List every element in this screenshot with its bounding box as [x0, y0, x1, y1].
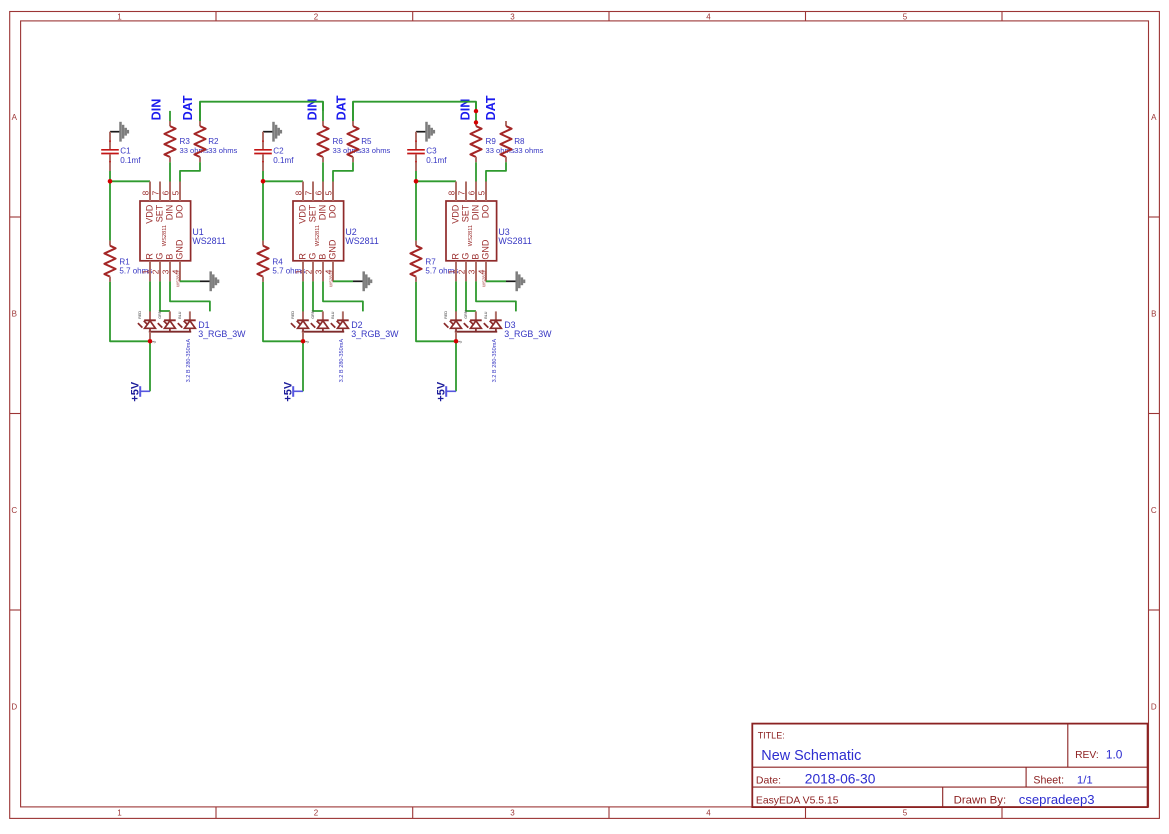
svg-text:6: 6	[313, 190, 323, 195]
wire junction to VDD pin 8 (block 2)	[263, 180, 303, 182]
pin name R (U1)	[145, 253, 155, 260]
wire pin 3 B to LED3 (block 2)	[323, 281, 363, 311]
net label DIN (block 2)	[306, 99, 320, 121]
drawn by value csepradeep3	[1019, 792, 1095, 807]
resistor R1	[104, 241, 115, 282]
svg-text:4: 4	[706, 809, 711, 818]
value 33 ohms (R5)	[361, 146, 390, 155]
svg-text:2: 2	[456, 269, 466, 274]
svg-text:DO: DO	[481, 205, 491, 219]
svg-text:R: R	[145, 253, 155, 260]
resistor R9	[470, 121, 481, 162]
label U2	[345, 227, 356, 237]
resistor R2	[194, 121, 205, 162]
svg-text:B: B	[1151, 309, 1156, 318]
svg-text:1: 1	[293, 269, 303, 274]
pin number 6 (U2)	[313, 190, 323, 195]
label D1	[198, 320, 209, 330]
frame column label 2 bottom	[314, 809, 319, 818]
svg-text:3.2 B 280-350mA: 3.2 B 280-350mA	[492, 339, 498, 383]
sheet value 1/1	[1077, 775, 1093, 787]
value 0.1mf (C1)	[120, 156, 141, 165]
svg-text:Sheet:: Sheet:	[1033, 775, 1064, 787]
power flag +5V (block 2)	[282, 381, 303, 402]
pin number 5 (U2)	[323, 190, 333, 195]
svg-text:GND: GND	[175, 239, 185, 260]
svg-text:R1: R1	[119, 258, 130, 267]
pin name B (U1)	[165, 254, 175, 260]
pin number 1 (U3)	[446, 269, 456, 274]
svg-text:3_RGB_3W: 3_RGB_3W	[198, 329, 246, 339]
label R3	[180, 137, 191, 146]
LED pin tag 1 (D2)	[291, 311, 295, 319]
label R1	[119, 258, 130, 267]
wire R1 to LED common	[110, 282, 150, 341]
svg-text:6: 6	[466, 190, 476, 195]
subpart text WS2811 below U2	[328, 270, 333, 287]
rev value 1.0	[1106, 747, 1123, 761]
svg-text:G: G	[308, 253, 318, 260]
svg-text:G: G	[155, 253, 165, 260]
svg-text:DAT: DAT	[181, 95, 195, 120]
svg-text:+5V: +5V	[435, 381, 447, 402]
svg-text:A: A	[1151, 113, 1157, 122]
svg-text:3.2 B 280-350mA: 3.2 B 280-350mA	[186, 339, 192, 383]
wire R5 to pin 5 (DO)	[333, 162, 353, 181]
svg-text:5: 5	[476, 190, 486, 195]
svg-text:BLU: BLU	[331, 311, 335, 319]
svg-text:+5V: +5V	[129, 381, 141, 402]
svg-text:3: 3	[466, 269, 476, 274]
value 3_RGB_3W (D2)	[351, 329, 399, 339]
value 3_RGB_3W (D3)	[504, 329, 552, 339]
svg-text:3: 3	[458, 340, 464, 343]
svg-text:DIN: DIN	[471, 205, 481, 221]
title block Date: label	[756, 775, 781, 787]
title block Drawn By: label	[954, 795, 1007, 807]
svg-text:DO: DO	[328, 205, 338, 219]
junction dot on U3 DIN wire (lower)	[474, 120, 478, 124]
pin number 4 (U3)	[476, 269, 486, 274]
junction node VDD rail (block 3)	[414, 179, 419, 184]
svg-text:1: 1	[140, 269, 150, 274]
svg-text:WS2811: WS2811	[315, 225, 321, 246]
svg-text:0.1mf: 0.1mf	[426, 156, 447, 165]
ground symbol near U3	[506, 271, 524, 291]
svg-text:R9: R9	[486, 137, 497, 146]
frame row label C left	[11, 506, 17, 515]
svg-text:csepradeep3: csepradeep3	[1019, 792, 1095, 807]
frame row label A right	[1151, 113, 1157, 122]
value 5.7 ohms (R7)	[425, 267, 458, 276]
pin name G (U3)	[461, 253, 471, 260]
pin number 6 (U1)	[160, 190, 170, 195]
net label DAT (block 3)	[484, 95, 498, 120]
label R8	[514, 137, 525, 146]
pin number 3 (U1)	[160, 269, 170, 274]
wire pin 3 B to LED3 (block 3)	[476, 281, 516, 311]
ground symbol near U1	[200, 271, 218, 291]
resistor R4	[257, 241, 268, 282]
LED pin tag 2 (D1)	[158, 310, 162, 319]
pin number 2 (U1)	[150, 269, 160, 274]
pin name VDD (U2)	[298, 204, 308, 224]
svg-text:4: 4	[706, 13, 711, 22]
svg-text:C: C	[11, 506, 17, 515]
svg-text:GRN: GRN	[311, 310, 315, 319]
pin name DO (U3)	[481, 205, 491, 219]
value 5.7 ohms (R1)	[119, 267, 152, 276]
pin name G (U2)	[308, 253, 318, 260]
svg-text:R6: R6	[333, 137, 344, 146]
pin name GND (U1)	[175, 239, 185, 260]
LED common pin number 3 (D1)	[152, 340, 158, 343]
svg-text:WS2811: WS2811	[328, 270, 333, 287]
LED array D2	[291, 311, 349, 339]
label R7	[425, 258, 436, 267]
svg-text:WS2811: WS2811	[498, 236, 531, 246]
svg-text:3: 3	[510, 809, 515, 818]
wire R4 to LED common	[263, 282, 303, 341]
svg-text:5: 5	[903, 809, 908, 818]
svg-text:VDD: VDD	[145, 204, 155, 224]
svg-text:1.0: 1.0	[1106, 747, 1123, 761]
svg-text:B: B	[12, 309, 17, 318]
resistor R8	[500, 121, 511, 162]
frame row label D right	[1151, 703, 1157, 712]
svg-text:TITLE:: TITLE:	[758, 730, 785, 740]
pin name DIN (U1)	[165, 205, 175, 221]
value 33 ohms (R9)	[486, 146, 515, 155]
svg-text:2018-06-30: 2018-06-30	[805, 772, 876, 787]
svg-text:SET: SET	[155, 204, 165, 222]
frame row label B left	[12, 309, 17, 318]
svg-text:R3: R3	[180, 137, 191, 146]
svg-text:WS2811: WS2811	[175, 270, 180, 287]
subpart text WS2811 below U3	[481, 270, 486, 287]
wire DIN stub to R3	[169, 111, 171, 121]
resistor R6	[317, 121, 328, 162]
junction node LED common (block 1)	[148, 339, 153, 344]
junction node LED common (block 3)	[454, 339, 459, 344]
pin number 7 (U3)	[456, 190, 466, 195]
svg-text:D: D	[11, 703, 17, 712]
wire DIN drop to R9	[475, 102, 477, 121]
value text 3.2 B 280-350mA (D3)	[492, 339, 498, 383]
svg-text:7: 7	[456, 190, 466, 195]
subpart text WS2811 inside U1	[162, 225, 168, 246]
ground symbol near C1	[110, 122, 128, 142]
pin number 1 (U1)	[140, 269, 150, 274]
wire LED common to +5V (block 1)	[149, 341, 151, 391]
svg-text:0.1mf: 0.1mf	[120, 156, 141, 165]
svg-text:C2: C2	[273, 146, 284, 155]
svg-text:WS2811: WS2811	[345, 236, 378, 246]
LED common pin number 3 (D2)	[305, 340, 311, 343]
wire junction to VDD pin 8 (block 3)	[416, 180, 456, 182]
wire R6 to pin 6	[322, 162, 324, 181]
svg-text:VDD: VDD	[298, 204, 308, 224]
svg-text:2: 2	[150, 269, 160, 274]
svg-text:DAT: DAT	[484, 95, 498, 120]
LED pin tag 2 (D3)	[464, 310, 468, 319]
pin name VDD (U3)	[451, 204, 461, 224]
svg-text:D: D	[1151, 703, 1157, 712]
svg-text:EasyEDA V5.5.15: EasyEDA V5.5.15	[756, 796, 839, 807]
wire junction to R4	[262, 181, 264, 240]
svg-text:R5: R5	[361, 137, 372, 146]
svg-text:3: 3	[510, 13, 515, 22]
svg-text:3: 3	[313, 269, 323, 274]
frame row label A left	[12, 113, 18, 122]
frame column label 5 top	[903, 13, 908, 22]
wire pin 4 GND to ground (block 3)	[486, 280, 506, 282]
svg-text:GND: GND	[328, 239, 338, 260]
wire pin 4 GND to ground (block 1)	[180, 280, 200, 282]
label R6	[333, 137, 344, 146]
pin number 2 (U3)	[456, 269, 466, 274]
resistor R5	[347, 121, 358, 162]
svg-text:A: A	[12, 113, 18, 122]
frame column label 1 top	[117, 13, 122, 22]
svg-text:0.1mf: 0.1mf	[273, 156, 294, 165]
wire DAT rise from R2	[199, 102, 201, 121]
svg-text:GRN: GRN	[158, 310, 162, 319]
svg-text:3: 3	[160, 269, 170, 274]
svg-text:3.2 B 280-350mA: 3.2 B 280-350mA	[339, 339, 345, 383]
label R2	[208, 137, 219, 146]
svg-text:33 ohms: 33 ohms	[208, 146, 237, 155]
svg-text:7: 7	[150, 190, 160, 195]
frame column label 3 top	[510, 13, 515, 22]
frame column label 4 top	[706, 13, 711, 22]
LED pin tag 2 (D2)	[311, 310, 315, 319]
value 33 ohms (R6)	[333, 146, 362, 155]
svg-text:1: 1	[117, 13, 122, 22]
svg-text:WS2811: WS2811	[481, 270, 486, 287]
capacitor C2	[254, 132, 272, 171]
value WS2811 (U1)	[192, 236, 225, 246]
pin name GND (U2)	[328, 239, 338, 260]
label D3	[504, 320, 515, 330]
wire net DAT1 (U1 DO to U2 DIN)	[200, 102, 323, 121]
pin name DO (U1)	[175, 205, 185, 219]
value 33 ohms (R2)	[208, 146, 237, 155]
net label DAT (block 2)	[335, 95, 349, 120]
label R5	[361, 137, 372, 146]
svg-text:BLU: BLU	[484, 311, 488, 319]
pin name SET (U3)	[461, 204, 471, 222]
svg-text:B: B	[165, 254, 175, 260]
frame column label 2 top	[314, 13, 319, 22]
pin number 3 (U3)	[466, 269, 476, 274]
frame row label D left	[11, 703, 17, 712]
wire C3 to junction	[415, 171, 417, 181]
LED pin tag 3 (D1)	[178, 311, 182, 319]
pin number 4 (U1)	[170, 269, 180, 274]
pin number 5 (U1)	[170, 190, 180, 195]
svg-text:33 ohms: 33 ohms	[514, 146, 543, 155]
svg-text:5: 5	[323, 190, 333, 195]
junction node LED common (block 2)	[301, 339, 306, 344]
subpart text WS2811 below U1	[175, 270, 180, 287]
frame row label B right	[1151, 309, 1156, 318]
label D2	[351, 320, 362, 330]
svg-text:WS2811: WS2811	[468, 225, 474, 246]
wire junction to VDD pin 8 (block 1)	[110, 180, 150, 182]
svg-text:BLU: BLU	[178, 311, 182, 319]
svg-text:DIN: DIN	[318, 205, 328, 221]
svg-text:R4: R4	[272, 258, 283, 267]
LED array D3	[444, 311, 502, 339]
pin number 6 (U3)	[466, 190, 476, 195]
wire pin 1 R to LED1 (block 3)	[455, 281, 457, 311]
svg-text:3: 3	[152, 340, 158, 343]
pin number 8 (U2)	[293, 190, 303, 195]
subpart text WS2811 inside U2	[315, 225, 321, 246]
pin number 4 (U2)	[323, 269, 333, 274]
junction node VDD rail (block 2)	[261, 179, 266, 184]
wire pin 1 R to LED1 (block 2)	[302, 281, 304, 311]
svg-text:5: 5	[903, 13, 908, 22]
svg-text:SET: SET	[308, 204, 318, 222]
svg-text:DO: DO	[175, 205, 185, 219]
frame column label 5 bottom	[903, 809, 908, 818]
frame column label 1 bottom	[117, 809, 122, 818]
wire pin 1 R to LED1 (block 1)	[149, 281, 151, 311]
value 0.1mf (C2)	[273, 156, 294, 165]
LED pin tag 1 (D3)	[444, 311, 448, 319]
ground symbol near U2	[353, 271, 371, 291]
wire LED common to +5V (block 2)	[302, 341, 304, 391]
frame column label 3 bottom	[510, 809, 515, 818]
svg-text:5: 5	[170, 190, 180, 195]
title block Sheet: label	[1033, 775, 1064, 787]
svg-text:8: 8	[446, 190, 456, 195]
svg-text:RED: RED	[291, 311, 295, 319]
svg-text:3: 3	[305, 340, 311, 343]
svg-text:R: R	[298, 253, 308, 260]
LED pin tag 3 (D3)	[484, 311, 488, 319]
value 5.7 ohms (R4)	[272, 267, 305, 276]
pin number 3 (U2)	[313, 269, 323, 274]
svg-text:6: 6	[160, 190, 170, 195]
pin number 8 (U3)	[446, 190, 456, 195]
svg-text:7: 7	[303, 190, 313, 195]
op chip U2 body	[293, 182, 344, 282]
LED pin tag 1 (D1)	[138, 311, 142, 319]
pin name DIN (U3)	[471, 205, 481, 221]
pin name B (U3)	[471, 254, 481, 260]
svg-text:GND: GND	[481, 239, 491, 260]
power flag +5V (block 3)	[435, 381, 456, 402]
svg-text:R: R	[451, 253, 461, 260]
svg-text:DAT: DAT	[335, 95, 349, 120]
wire pin 2 G to LED2 (block 1)	[160, 281, 170, 311]
net label DAT (block 1)	[181, 95, 195, 120]
op chip U3 body	[446, 182, 497, 282]
svg-text:3_RGB_3W: 3_RGB_3W	[351, 329, 399, 339]
date value 2018-06-30	[805, 772, 876, 787]
value 33 ohms (R8)	[514, 146, 543, 155]
power flag +5V (block 1)	[129, 381, 150, 402]
svg-text:R8: R8	[514, 137, 525, 146]
pin name B (U2)	[318, 254, 328, 260]
svg-text:DIN: DIN	[149, 99, 163, 121]
svg-text:RED: RED	[138, 311, 142, 319]
svg-text:GRN: GRN	[464, 310, 468, 319]
LED array D1	[138, 311, 196, 339]
pin number 5 (U3)	[476, 190, 486, 195]
value text 3.2 B 280-350mA (D2)	[339, 339, 345, 383]
svg-text:G: G	[461, 253, 471, 260]
value 33 ohms (R3)	[180, 146, 209, 155]
title block REV: label	[1075, 750, 1099, 761]
wire R8 to pin 5 (DO)	[486, 162, 506, 181]
pin name G (U1)	[155, 253, 165, 260]
svg-text:1: 1	[117, 809, 122, 818]
label R9	[486, 137, 497, 146]
svg-text:B: B	[471, 254, 481, 260]
pin name DO (U2)	[328, 205, 338, 219]
pin number 1 (U2)	[293, 269, 303, 274]
svg-text:Date:: Date:	[756, 775, 781, 787]
pin name SET (U1)	[155, 204, 165, 222]
wire R2 to pin 5 (DO)	[180, 162, 200, 181]
svg-text:B: B	[318, 254, 328, 260]
svg-text:VDD: VDD	[451, 204, 461, 224]
svg-text:33 ohms: 33 ohms	[361, 146, 390, 155]
junction node VDD rail (block 1)	[108, 179, 113, 184]
svg-text:DIN: DIN	[165, 205, 175, 221]
pin name DIN (U2)	[318, 205, 328, 221]
pin number 2 (U2)	[303, 269, 313, 274]
resistor R3	[164, 121, 175, 162]
label C2	[273, 146, 284, 155]
capacitor C3	[407, 132, 425, 171]
wire C1 to junction	[109, 171, 111, 181]
pin number 7 (U2)	[303, 190, 313, 195]
pin number 8 (U1)	[140, 190, 150, 195]
svg-text:8: 8	[140, 190, 150, 195]
svg-text:WS2811: WS2811	[192, 236, 225, 246]
junction dot on U3 DIN wire (upper)	[474, 109, 478, 113]
title block EasyEDA version	[756, 796, 839, 807]
pin name SET (U2)	[308, 204, 318, 222]
value WS2811 (U2)	[345, 236, 378, 246]
svg-text:C1: C1	[120, 146, 131, 155]
svg-text:WS2811: WS2811	[162, 225, 168, 246]
svg-text:8: 8	[293, 190, 303, 195]
svg-text:1/1: 1/1	[1077, 775, 1093, 787]
svg-text:2: 2	[314, 809, 319, 818]
svg-text:3_RGB_3W: 3_RGB_3W	[504, 329, 552, 339]
wire junction to R1	[109, 181, 111, 240]
LED common pin number 3 (D3)	[458, 340, 464, 343]
wire pin 2 G to LED2 (block 2)	[313, 281, 323, 311]
wire pin 2 G to LED2 (block 3)	[466, 281, 476, 311]
net label DIN (block 1)	[149, 99, 163, 121]
svg-text:SET: SET	[461, 204, 471, 222]
svg-text:+5V: +5V	[282, 381, 294, 402]
value text 3.2 B 280-350mA (D1)	[186, 339, 192, 383]
svg-text:New Schematic: New Schematic	[761, 748, 861, 764]
svg-text:REV:: REV:	[1075, 750, 1099, 761]
capacitor C1	[101, 132, 119, 171]
label U3	[498, 227, 509, 237]
wire LED common to +5V (block 3)	[455, 341, 457, 391]
svg-text:R7: R7	[425, 258, 436, 267]
